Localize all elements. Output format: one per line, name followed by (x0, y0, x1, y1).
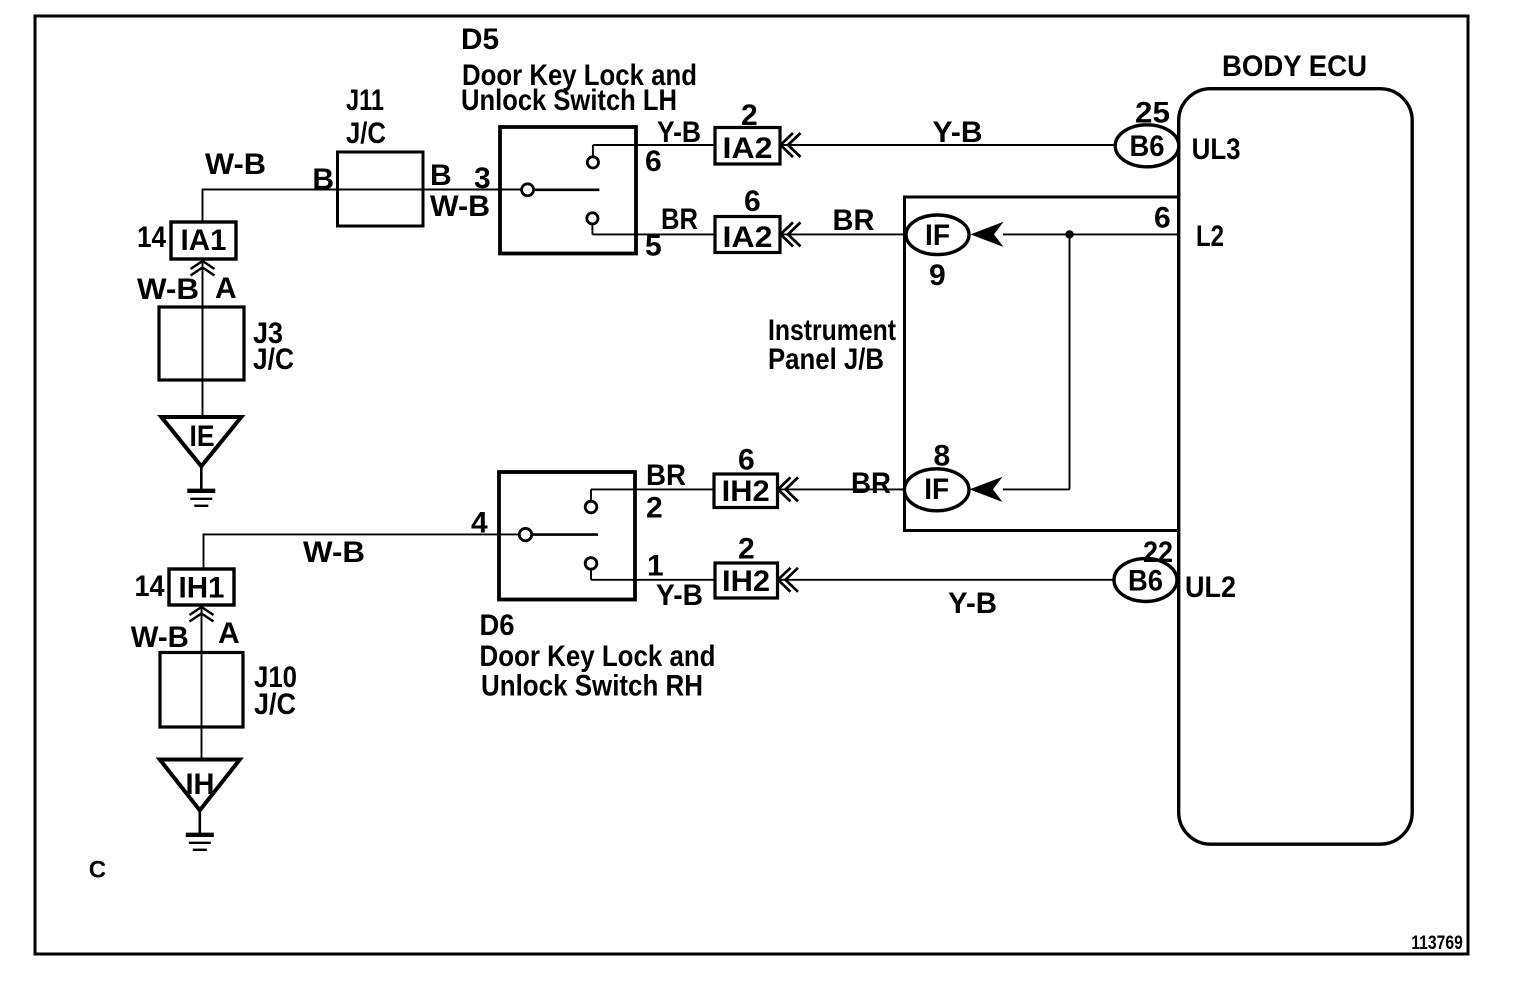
svg-text:5: 5 (645, 230, 662, 263)
svg-text:Panel J/B: Panel J/B (768, 343, 884, 376)
svg-text:113769: 113769 (1411, 933, 1463, 954)
svg-text:UL3: UL3 (1192, 133, 1241, 166)
svg-text:2: 2 (738, 533, 755, 566)
svg-text:IH2: IH2 (722, 475, 770, 508)
svg-text:14: 14 (137, 221, 166, 254)
svg-text:1: 1 (647, 550, 664, 583)
svg-text:Y-B: Y-B (933, 116, 983, 149)
svg-text:2: 2 (646, 492, 663, 525)
svg-text:W-B: W-B (137, 273, 199, 306)
svg-text:Y-B: Y-B (948, 587, 997, 620)
svg-text:Y-B: Y-B (656, 579, 703, 612)
svg-text:BR: BR (833, 204, 875, 237)
svg-text:IH1: IH1 (179, 572, 225, 605)
svg-text:J/C: J/C (346, 117, 386, 150)
svg-text:IF: IF (925, 219, 950, 252)
svg-text:IA1: IA1 (181, 224, 227, 257)
svg-text:B: B (312, 163, 334, 196)
svg-text:IE: IE (190, 420, 215, 453)
svg-text:BR: BR (661, 203, 698, 236)
svg-text:J/C: J/C (254, 688, 296, 721)
svg-text:2: 2 (741, 99, 758, 132)
svg-text:B6: B6 (1128, 565, 1163, 598)
svg-text:W-B: W-B (430, 190, 490, 223)
svg-text:Unlock Switch LH: Unlock Switch LH (461, 84, 677, 117)
svg-text:Unlock Switch RH: Unlock Switch RH (481, 670, 703, 703)
svg-text:UL2: UL2 (1185, 571, 1236, 604)
svg-text:8: 8 (934, 440, 951, 473)
svg-text:B: B (430, 159, 452, 192)
svg-text:W-B: W-B (131, 621, 189, 654)
svg-text:D6: D6 (480, 609, 515, 642)
svg-text:BODY ECU: BODY ECU (1222, 50, 1367, 83)
svg-text:6: 6 (645, 145, 662, 178)
svg-text:4: 4 (471, 507, 488, 540)
svg-text:IH: IH (186, 768, 215, 801)
svg-text:Y-B: Y-B (657, 116, 701, 149)
svg-text:A: A (215, 272, 237, 305)
svg-text:L2: L2 (1196, 220, 1224, 253)
svg-text:6: 6 (738, 444, 755, 477)
svg-text:BR: BR (646, 459, 686, 492)
svg-text:J/C: J/C (253, 343, 294, 376)
svg-text:6: 6 (1154, 202, 1171, 235)
svg-text:A: A (218, 617, 240, 650)
svg-text:BR: BR (851, 467, 891, 500)
svg-text:IH2: IH2 (722, 565, 770, 598)
svg-text:25: 25 (1135, 97, 1170, 130)
svg-text:IA2: IA2 (723, 221, 773, 254)
svg-text:J11: J11 (346, 84, 384, 117)
svg-text:B6: B6 (1130, 130, 1165, 163)
svg-text:6: 6 (744, 185, 761, 218)
svg-text:W-B: W-B (205, 148, 266, 181)
svg-text:D5: D5 (461, 23, 499, 56)
svg-text:IF: IF (924, 473, 949, 506)
svg-text:14: 14 (135, 570, 165, 603)
svg-text:IA2: IA2 (723, 132, 773, 165)
svg-text:Door Key Lock and: Door Key Lock and (480, 640, 716, 673)
svg-text:W-B: W-B (303, 536, 365, 569)
svg-text:9: 9 (929, 259, 946, 292)
svg-text:C: C (89, 857, 106, 884)
